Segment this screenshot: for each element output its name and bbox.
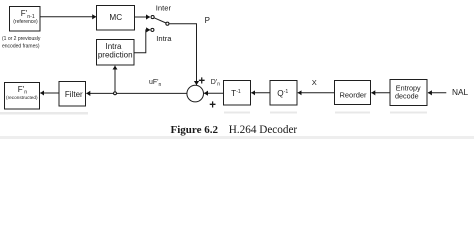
wire T-1 to summer: [204, 92, 223, 94]
svg-text:Reorder: Reorder: [339, 90, 367, 99]
block Entropy decode: [390, 80, 427, 106]
wire NAL input to Entropy decode: [428, 92, 446, 94]
svg-text:X: X: [312, 78, 317, 87]
wire Q-1 to T-1: [251, 92, 269, 94]
switch contact Intra: [151, 28, 154, 31]
scan shadow bottom band: [0, 136, 474, 139]
svg-text:Filter: Filter: [65, 90, 83, 99]
svg-text:P: P: [205, 16, 210, 25]
svg-text:NAL: NAL: [452, 87, 469, 97]
block F'n (reconstructed): [5, 83, 40, 110]
scan shadow under Entropy decode: [390, 112, 427, 114]
switch contact Inter: [151, 16, 154, 19]
scan shadow under Reorder: [335, 112, 370, 114]
switch arm: [154, 18, 166, 23]
node junction uF'n: [114, 92, 117, 95]
wire Entropy decode to Reorder: [371, 92, 389, 94]
scan shadow under T-1: [224, 112, 250, 114]
wire pole to summer (node P): [169, 24, 196, 85]
scan shadow under Q-1: [270, 112, 297, 114]
summer node: [187, 85, 204, 102]
scan shadow bottom-left: [0, 112, 88, 115]
caption Figure 6.2 H.264 Decoder: [171, 124, 298, 136]
switch pole: [166, 22, 169, 25]
svg-text:encoded frames): encoded frames): [2, 44, 40, 50]
svg-text:Inter: Inter: [156, 4, 172, 13]
wire Filter to F'n: [40, 92, 58, 94]
svg-text:Figure 6.2: Figure 6.2: [171, 124, 219, 136]
svg-text:decode: decode: [395, 91, 419, 100]
svg-text:(reconstructed): (reconstructed): [6, 95, 38, 100]
svg-text:prediction: prediction: [98, 50, 133, 59]
wire Reorder to Q-1: [298, 92, 334, 94]
block Reorder: [335, 81, 371, 105]
wire MC to Inter contact: [135, 16, 151, 18]
block T-1 (inverse transform): [224, 81, 251, 106]
svg-text:(1 or 2 previously: (1 or 2 previously: [2, 36, 41, 42]
wire Intra prediction to Intra contact: [134, 30, 150, 53]
svg-text:Intra: Intra: [156, 34, 172, 43]
block Filter: [59, 82, 86, 107]
svg-text:H.264 Decoder: H.264 Decoder: [229, 124, 298, 136]
svg-text:MC: MC: [109, 13, 122, 22]
block Intra prediction: [97, 40, 135, 66]
wire summer to Filter: [86, 92, 187, 94]
block MC (motion compensate): [97, 6, 135, 31]
svg-text:(reference): (reference): [13, 19, 38, 25]
wire junction to Intra prediction: [114, 66, 116, 92]
note (1 or 2 previously encoded frames): [2, 36, 41, 50]
block F'n-1 (reference frame store): [10, 7, 41, 32]
svg-text:+: +: [198, 75, 205, 87]
svg-text:+: +: [209, 100, 216, 112]
wire F'n-1 to MC: [40, 16, 96, 18]
block Q-1 (inverse quantize): [270, 81, 297, 106]
